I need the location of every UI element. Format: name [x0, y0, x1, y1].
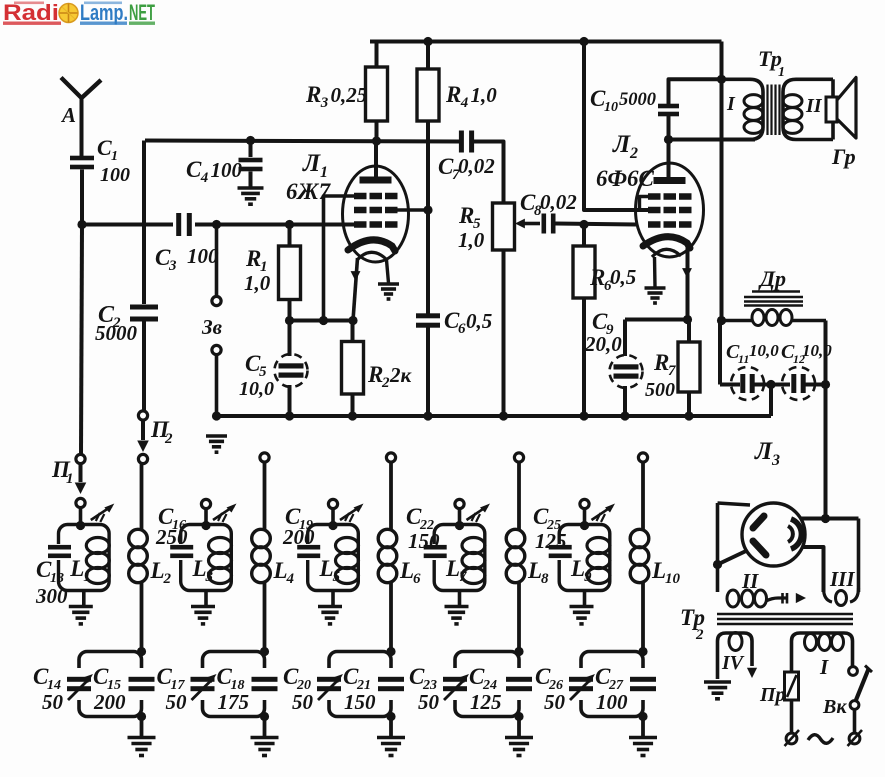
terminal 3V upper: [212, 296, 221, 305]
junction P1 / L1: [76, 521, 85, 530]
svg-text:10,0: 10,0: [749, 341, 779, 360]
antenna A: [61, 78, 101, 157]
label C8 0,02: [520, 190, 577, 219]
junction coil / C27: [638, 647, 647, 656]
svg-text:IV: IV: [721, 652, 745, 674]
ground under L3: [191, 607, 215, 624]
junction R1 / C5: [285, 316, 294, 325]
label Gr: [831, 144, 856, 169]
ground under L7: [445, 607, 469, 624]
label C21 150: [343, 664, 376, 714]
label AC tilde: [808, 735, 833, 744]
svg-text:L: L: [192, 556, 207, 581]
ground under C21: [377, 738, 405, 756]
label C17 50: [157, 664, 188, 714]
svg-text:175: 175: [218, 690, 250, 714]
junction cathode / R2: [348, 316, 357, 325]
junction C12 / rectifier: [821, 380, 830, 389]
label winding IV of Tr2: [721, 652, 745, 674]
label C19 200: [282, 504, 315, 549]
svg-text:300: 300: [35, 584, 68, 608]
junction gnd bus / R5: [499, 411, 508, 420]
svg-text:4: 4: [286, 571, 295, 587]
capacitor C4: [239, 141, 263, 189]
svg-text:150: 150: [408, 529, 440, 553]
svg-text:С: С: [97, 135, 112, 160]
coil L6: [378, 462, 397, 652]
svg-text:50: 50: [292, 690, 314, 714]
ground under L9: [570, 607, 594, 624]
label C11 10,0: [726, 341, 779, 366]
junction anode / C10: [664, 135, 673, 144]
junction C18 / ground: [260, 712, 269, 737]
junction gnd bus / C5: [285, 411, 294, 420]
choke Dr core: [744, 297, 803, 306]
svg-text:500: 500: [645, 379, 675, 401]
choke Dr: [720, 310, 826, 326]
svg-text:L: L: [651, 558, 666, 583]
ground at bus left end: [206, 436, 227, 452]
svg-text:С: С: [186, 157, 202, 182]
label C6 0,5: [444, 308, 492, 337]
label C27 100: [595, 664, 628, 714]
label C24 125: [469, 664, 502, 714]
terminal of L8: [514, 453, 523, 462]
svg-text:L: L: [445, 556, 460, 581]
capacitor C6: [416, 210, 440, 416]
wire cathode node: [625, 318, 688, 322]
svg-text:0,25: 0,25: [331, 83, 368, 107]
wire C11 left: [720, 321, 740, 385]
svg-text:Пр: Пр: [759, 684, 786, 706]
svg-text:5000: 5000: [95, 321, 138, 345]
label R4 1,0: [445, 82, 497, 111]
switch P1 lower contact: [76, 498, 85, 524]
svg-text:I: I: [726, 93, 736, 115]
ground under L5: [318, 607, 342, 624]
svg-text:6: 6: [413, 571, 421, 587]
junction cathode / R7: [683, 315, 692, 324]
wire grid bus of L1: [145, 141, 460, 142]
junction coil / C21: [386, 647, 395, 656]
label C4 100: [186, 157, 243, 186]
svg-text:III: III: [829, 567, 855, 591]
label L1 tube: [302, 150, 328, 181]
capacitor C9: [610, 320, 643, 417]
label C12 10,0: [781, 341, 832, 366]
svg-text:0,02: 0,02: [540, 190, 577, 214]
label C23 50: [409, 664, 440, 714]
label C7 0,02: [438, 154, 495, 183]
label Dr: [752, 266, 800, 292]
svg-text:2: 2: [695, 627, 704, 643]
svg-text:125: 125: [535, 529, 567, 553]
junction antenna / bus: [77, 220, 86, 229]
label coil L2: [150, 558, 172, 587]
wiper arrow of R5: [515, 219, 540, 229]
label R6 0,5: [589, 265, 636, 294]
junction gnd bus / C9: [620, 411, 629, 420]
tank circuit L9 / C25: [549, 525, 610, 607]
wire C2 column: [142, 141, 146, 305]
terminal mains right: [848, 730, 863, 746]
label C15 200: [93, 664, 126, 714]
terminal 3V lower: [212, 345, 221, 354]
junction C11 / C12 midpoint: [766, 380, 775, 389]
label Pr: [759, 684, 786, 706]
wire 3V tap: [215, 225, 219, 297]
svg-text:L: L: [319, 556, 334, 581]
svg-text:3: 3: [771, 452, 780, 469]
wire cathode bus of L1: [290, 319, 354, 323]
svg-text:150: 150: [344, 690, 376, 714]
junction C24 / ground: [514, 712, 523, 737]
svg-text:8: 8: [541, 571, 549, 587]
svg-text:4: 4: [460, 95, 469, 111]
capacitor C3: [176, 213, 192, 236]
junction C15 / ground: [137, 712, 146, 737]
label R7 500: [645, 350, 676, 401]
svg-text:R: R: [653, 350, 669, 375]
svg-text:100: 100: [187, 244, 219, 268]
svg-text:0,5: 0,5: [466, 309, 492, 333]
label coil L6: [399, 558, 421, 587]
label R3 0,25: [305, 82, 367, 111]
svg-text:Л: Л: [754, 438, 773, 465]
label R1 1,0: [244, 246, 271, 295]
terminal of L6: [386, 453, 395, 462]
svg-text:200: 200: [93, 690, 126, 714]
label 3v: [201, 315, 223, 339]
label C5 10,0: [239, 351, 274, 400]
transformer Tr2 winding IV: [718, 633, 758, 680]
label winding II of Tr2: [741, 569, 759, 593]
svg-text:L: L: [399, 558, 414, 583]
svg-text:R: R: [245, 246, 261, 271]
wire midpoint to ground bus: [769, 385, 773, 417]
svg-text:1: 1: [83, 569, 91, 585]
wire anode to transformer: [669, 138, 756, 142]
ground under winding IV: [704, 682, 731, 699]
transformer Tr1 secondary II: [783, 79, 833, 139]
svg-text:R: R: [305, 82, 321, 107]
transformer Tr2 winding I (mains): [792, 633, 853, 672]
svg-text:9: 9: [584, 569, 592, 585]
wire rectifier filament left: [718, 551, 747, 565]
transformer Tr2 winding II (filament of L3): [718, 503, 807, 607]
label coil L1: [69, 556, 91, 585]
trimmer C23 / capacitor C24: [443, 652, 532, 717]
switch P1 contact: [76, 225, 85, 464]
svg-text:3: 3: [168, 258, 177, 274]
svg-text:II: II: [805, 95, 823, 117]
tank circuit L1 / C13: [48, 525, 109, 607]
svg-text:1,0: 1,0: [244, 271, 271, 295]
capacitor C11: [731, 367, 790, 400]
coil L8: [506, 462, 525, 652]
coil L10: [630, 462, 649, 652]
junction top bus / R4: [423, 37, 432, 46]
tank circuit L3 / C16: [170, 525, 231, 607]
label C14 50: [33, 664, 64, 714]
trimmer core arrow of L7: [467, 504, 491, 523]
svg-text:5000: 5000: [619, 90, 656, 110]
label coil L8: [527, 558, 549, 587]
tank circuit L7 / C22: [424, 525, 485, 607]
label P2: [150, 417, 173, 447]
svg-text:2: 2: [381, 375, 390, 391]
label Vk: [822, 696, 847, 718]
label 6F6S: [596, 166, 655, 191]
label coil L7: [445, 556, 467, 585]
trimmer C17 / capacitor C18: [191, 652, 278, 717]
label C2 5000: [95, 302, 138, 345]
svg-text:2: 2: [163, 571, 172, 587]
svg-text:R: R: [445, 82, 461, 107]
svg-text:3: 3: [320, 95, 329, 111]
capacitor C10: [658, 79, 722, 139]
wire grid bus (detector input): [82, 223, 173, 227]
terminal of L5: [328, 499, 337, 530]
ground under L1: [378, 284, 399, 299]
label C3 100: [155, 244, 219, 274]
svg-text:1: 1: [778, 65, 785, 80]
svg-text:50: 50: [544, 690, 566, 714]
svg-text:3: 3: [205, 569, 214, 585]
junction C27 / ground: [638, 712, 647, 737]
svg-text:1: 1: [66, 471, 74, 487]
svg-text:50: 50: [418, 690, 440, 714]
ground under C27: [629, 738, 657, 756]
transformer Tr1 core: [768, 85, 780, 136]
wire L1 heater to cathode bus: [351, 258, 361, 321]
tank circuit L5 / C19: [297, 525, 358, 607]
wire top +B bus: [370, 40, 722, 44]
svg-text:1,0: 1,0: [458, 228, 485, 252]
trimmer C14 / capacitor C15: [67, 652, 155, 717]
label winding I of Tr1: [726, 93, 736, 115]
label A: [60, 103, 76, 127]
wire L2 cathode lead: [682, 244, 692, 320]
svg-text:0,02: 0,02: [458, 154, 495, 178]
wire 3V to ground: [215, 355, 219, 417]
ground under L2: [645, 288, 666, 303]
wire ground bus: [217, 414, 772, 418]
trimmer core arrow of L1: [91, 504, 115, 523]
svg-text:6Ф6С: 6Ф6С: [596, 166, 655, 191]
label coil L4: [273, 558, 295, 587]
svg-text:10,0: 10,0: [802, 341, 832, 360]
switch P2 lower contact: [138, 454, 147, 463]
wire suppressor jumper L2: [640, 197, 650, 210]
wire screen feed of L2: [584, 42, 649, 211]
svg-text:50: 50: [42, 690, 64, 714]
terminal of L3: [201, 499, 210, 530]
switch Vk: [849, 666, 872, 733]
label winding III of Tr2: [829, 567, 855, 591]
trimmer C20 / capacitor C21: [317, 652, 404, 717]
svg-text:4: 4: [200, 170, 209, 186]
junction filament / II: [713, 560, 722, 569]
svg-text:Др: Др: [758, 266, 786, 291]
svg-text:50: 50: [166, 690, 188, 714]
trimmer core arrow of L5: [340, 504, 364, 523]
svg-text:100: 100: [596, 690, 628, 714]
label R5 1,0: [458, 203, 485, 252]
svg-text:0,5: 0,5: [610, 265, 636, 289]
svg-text:L: L: [527, 558, 542, 583]
junction grid L2 / R6: [579, 220, 588, 229]
resistor R7: [678, 320, 700, 417]
capacitor C1: [70, 156, 94, 225]
wire choke to rectifier: [824, 321, 828, 519]
svg-text:250: 250: [155, 525, 188, 549]
junction +B / output transformer: [717, 75, 726, 84]
svg-text:Л: Л: [302, 150, 321, 177]
capacitor C5: [275, 321, 308, 417]
resistor R3: [366, 42, 388, 141]
resistor R4: [417, 42, 439, 211]
svg-text:200: 200: [282, 525, 315, 549]
wire suppressor to cathode: [324, 196, 355, 321]
coil L2: [129, 462, 148, 652]
junction C21 / ground: [386, 712, 395, 737]
label C20 50: [283, 664, 314, 714]
trimmer C26 / capacitor C27: [569, 652, 656, 717]
wire B+ vertical to choke: [717, 316, 726, 325]
label L2 tube: [612, 131, 638, 162]
svg-text:1: 1: [111, 149, 118, 164]
svg-text:100: 100: [211, 158, 243, 182]
label C18 175: [217, 664, 250, 714]
svg-text:100: 100: [100, 164, 130, 186]
label coil L5: [319, 556, 341, 585]
svg-text:II: II: [741, 569, 759, 593]
svg-text:10: 10: [604, 100, 618, 115]
junction suppressor: [319, 316, 328, 325]
switch P2 wiper: [137, 421, 149, 453]
svg-text:10,0: 10,0: [239, 378, 274, 400]
junction gnd bus / R7: [684, 411, 693, 420]
ground under L1: [69, 607, 93, 624]
label C25 125: [533, 504, 567, 553]
label 6Zh7: [286, 179, 332, 204]
capacitor C7: [459, 131, 504, 204]
capacitor C12: [782, 367, 826, 400]
terminal mains left: [785, 730, 800, 746]
junction gnd bus / R6: [579, 411, 588, 420]
junction coil / C15: [137, 647, 146, 656]
trimmer core arrow of L3: [213, 504, 237, 523]
svg-text:L: L: [69, 556, 84, 581]
speaker Gr: [826, 78, 856, 139]
label coil L3: [192, 556, 214, 585]
label coil L10: [651, 558, 681, 587]
junction grid bus / C4: [246, 136, 255, 145]
junction gnd bus / R2: [348, 411, 357, 420]
svg-text:А: А: [60, 103, 76, 127]
transformer Tr1 primary I: [722, 79, 764, 139]
svg-text:2к: 2к: [389, 363, 413, 387]
svg-text:Вк: Вк: [822, 696, 847, 718]
svg-text:5: 5: [333, 569, 341, 585]
svg-text:11: 11: [738, 352, 749, 366]
junction gnd bus / 3V: [212, 411, 221, 420]
svg-text:Гр: Гр: [831, 144, 856, 169]
wire rectifier to III left: [802, 547, 824, 592]
capacitor C2: [130, 305, 158, 322]
label C13 300: [35, 557, 68, 608]
ground under C18: [251, 738, 279, 756]
switch P1 wiper: [75, 464, 87, 495]
label R2 2k: [367, 362, 413, 391]
label Tr1: [758, 46, 785, 80]
wire L2 heater to ground: [653, 257, 657, 287]
svg-text:L: L: [150, 558, 165, 583]
transformer Tr2 winding III (HV): [824, 519, 859, 606]
svg-text:7: 7: [668, 363, 676, 379]
fuse Pr: [785, 672, 799, 732]
label coil L9: [570, 556, 592, 585]
transformer Tr2 core: [717, 614, 853, 624]
label C1 100: [97, 135, 130, 186]
svg-text:L: L: [570, 556, 585, 581]
ground under C4: [238, 188, 264, 204]
svg-text:2: 2: [629, 145, 638, 162]
label winding II of Tr1: [805, 95, 823, 117]
wire rectifier plate: [800, 517, 859, 521]
label winding I of Tr2: [819, 655, 829, 679]
label C16 250: [155, 504, 188, 549]
junction gnd bus / C6: [423, 411, 432, 420]
label P1: [51, 457, 74, 487]
junction top bus / screen feed: [579, 37, 588, 46]
resistor R1: [279, 225, 301, 321]
svg-text:Зв: Зв: [201, 315, 223, 339]
terminal of L10: [638, 453, 647, 462]
svg-text:1,0: 1,0: [471, 83, 498, 107]
wire screen of L1: [395, 208, 428, 212]
svg-text:NET: NET: [129, 0, 155, 25]
label C9 20,0: [584, 309, 622, 356]
ground under C15: [128, 738, 156, 756]
svg-text:L: L: [273, 558, 288, 583]
svg-text:R: R: [589, 265, 605, 290]
svg-text:20,0: 20,0: [584, 332, 622, 356]
label Tr2: [680, 605, 705, 643]
svg-text:6: 6: [458, 321, 466, 337]
junction bus / 3V tap: [212, 220, 221, 229]
coil L4: [252, 462, 271, 652]
wire grid bus to tube: [195, 223, 356, 227]
junction coil / C18: [260, 647, 269, 656]
junction coil / C24: [514, 647, 523, 656]
label C10 5000: [590, 86, 656, 115]
junction grid bus / R3 / grid cap: [372, 136, 381, 145]
switch P2 contact: [138, 411, 147, 420]
wire C2 to switch P2: [142, 321, 146, 412]
svg-text:R: R: [458, 203, 474, 228]
wire +B right vertical: [720, 42, 724, 321]
resistor R2: [342, 321, 364, 417]
label L3 tube: [754, 438, 780, 469]
terminal of L9: [580, 499, 589, 530]
capacitor C8: [542, 214, 637, 234]
trimmer core arrow of L9: [592, 504, 616, 523]
svg-text:7: 7: [459, 569, 467, 585]
tube U3 (L3 rectifier): [742, 503, 805, 566]
resistor R6: [573, 225, 595, 417]
